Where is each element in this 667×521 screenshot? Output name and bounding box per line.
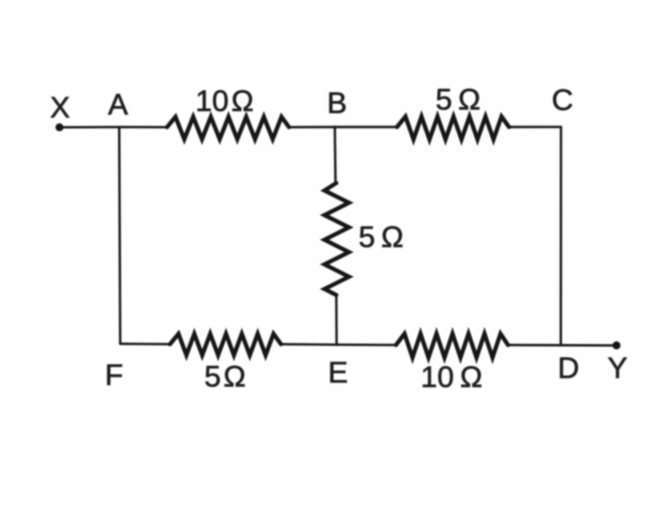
svg-text:5 Ω: 5 Ω: [435, 84, 480, 117]
wire A to resistor 10ohm: [119, 126, 167, 128]
wire resistor to D and Y: [508, 344, 617, 347]
resistor 10ohm (E-D): [396, 334, 508, 358]
svg-text:X: X: [50, 92, 70, 125]
svg-text:10 Ω: 10 Ω: [421, 361, 483, 394]
wire resistor to node E: [335, 295, 338, 345]
wire resistor to node E bottom: [281, 343, 337, 346]
svg-text:5 Ω: 5 Ω: [204, 361, 246, 394]
terminal dot Y: [613, 341, 621, 349]
svg-text:Y: Y: [607, 352, 627, 385]
wire E to resistor 10ohm bottom: [337, 344, 396, 347]
svg-text:E: E: [328, 357, 348, 390]
svg-text:B: B: [327, 87, 347, 120]
wire C to D (right branch): [560, 127, 563, 345]
terminal dot X: [56, 123, 64, 131]
svg-text:10 Ω: 10 Ω: [195, 85, 253, 118]
wire X to A (top rail left): [60, 126, 120, 129]
svg-text:F: F: [105, 359, 123, 392]
resistor 10ohm (A-B): [167, 117, 289, 139]
wire B to resistor 5ohm top: [335, 126, 397, 128]
svg-text:A: A: [108, 89, 128, 122]
wire F to resistor 5ohm bottom: [120, 343, 170, 346]
wire resistor to node B: [289, 126, 335, 129]
wire A to F (left branch): [119, 127, 120, 344]
svg-text:5 Ω: 5 Ω: [358, 221, 403, 254]
resistor 5ohm (F-E): [170, 334, 281, 355]
svg-text:C: C: [552, 84, 574, 117]
wire B down to resistor 5ohm middle: [334, 127, 337, 183]
svg-text:D: D: [558, 352, 580, 385]
resistor 5ohm (B-E) vertical: [325, 183, 350, 295]
wire resistor to node C: [509, 126, 561, 128]
resistor 5ohm (B-C): [397, 117, 509, 140]
